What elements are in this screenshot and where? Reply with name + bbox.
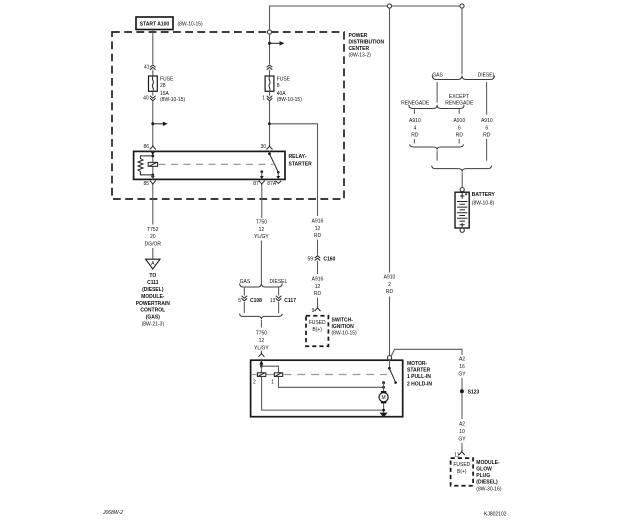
svg-text:(GAS): (GAS): [146, 315, 161, 321]
svg-text:(8W-13-2): (8W-13-2): [349, 53, 372, 59]
svg-text:POWER: POWER: [349, 33, 368, 39]
svg-text:T750: T750: [256, 331, 268, 337]
svg-text:MOTOR-: MOTOR-: [407, 361, 428, 367]
label FUSE 8 40A: [277, 77, 303, 103]
node junction circle on top wire left: [387, 4, 391, 8]
wire into motor starter: [260, 351, 262, 353]
svg-text:86: 86: [143, 144, 149, 150]
ground: [380, 413, 388, 418]
svg-text:A910: A910: [384, 274, 396, 280]
svg-text:A2: A2: [459, 422, 465, 428]
wire right branch from PDC border to fuse 8: [269, 34, 271, 64]
svg-text:YL/GY: YL/GY: [254, 345, 269, 351]
svg-text:85: 85: [143, 181, 149, 187]
connector chevron pin 86: [150, 145, 156, 150]
svg-text:T752: T752: [147, 227, 159, 233]
label wire A916 12 RD lower: [312, 276, 324, 297]
relay switch arm 30 to 87A: [268, 151, 280, 173]
svg-text:2 HOLD-IN: 2 HOLD-IN: [407, 381, 432, 387]
connector Y pin 85: [150, 181, 156, 186]
svg-text:13: 13: [270, 298, 276, 304]
svg-text:A910: A910: [481, 118, 493, 124]
svg-text:RD: RD: [483, 133, 491, 139]
motor mechanical dashed link: [252, 374, 387, 376]
wire T750 to split brace: [260, 241, 262, 284]
label POWER DISTRIBUTION CENTER: [349, 33, 385, 59]
battery: [455, 192, 469, 228]
wire T752 lower: [152, 248, 154, 259]
wire tick below merge: [260, 320, 262, 328]
connector chevron pin 30: [267, 145, 273, 150]
svg-text:A916: A916: [312, 276, 324, 282]
svg-text:STARTER: STARTER: [289, 161, 313, 167]
node circle where feed wire crosses PDC border: [267, 30, 271, 34]
switch-ignition dashed box FUSED B(+): [306, 316, 328, 346]
wire tick renegade lower: [413, 139, 415, 143]
svg-text:A910: A910: [454, 118, 466, 124]
wire T750 from pin 87: [261, 185, 263, 218]
svg-text:8: 8: [277, 83, 280, 89]
svg-text:GAS: GAS: [432, 72, 443, 78]
wire dot to pull-in coil: [261, 366, 278, 373]
svg-text:RD: RD: [456, 133, 464, 139]
wire battery feed down from top: [461, 8, 463, 74]
svg-text:RD: RD: [386, 289, 394, 295]
svg-text:16: 16: [459, 364, 465, 370]
svg-text:RENEGADE: RENEGADE: [401, 100, 430, 106]
wire tick except branch: [458, 109, 460, 114]
svg-text:C111: C111: [147, 280, 159, 286]
svg-text:(8W-10-15): (8W-10-15): [160, 97, 186, 103]
brace split T750 gas/diesel: [240, 283, 283, 287]
label wire T750 12 YL/GY: [254, 219, 269, 240]
svg-text:87: 87: [253, 181, 259, 187]
svg-text:DIESEL: DIESEL: [478, 72, 496, 78]
connector double chevron C108: [242, 296, 248, 301]
svg-text:4: 4: [414, 125, 417, 131]
connector open chevron pin 87A: [276, 181, 282, 183]
connector double chevron at pin 40: [150, 96, 156, 101]
svg-text:C108: C108: [250, 298, 262, 304]
svg-text:RD: RD: [314, 233, 322, 239]
label wire A910 6 RD (diesel): [481, 118, 493, 139]
connector pin 9: [315, 307, 321, 312]
brace split gas/diesel feed: [432, 76, 494, 80]
svg-text:A916: A916: [312, 218, 324, 224]
svg-text:40: 40: [143, 96, 149, 102]
connector double chevron above fuse 8: [267, 65, 273, 70]
svg-text:T750: T750: [256, 219, 268, 225]
wire gas branch upper: [436, 82, 438, 103]
svg-text:START A100: START A100: [140, 21, 170, 27]
node splice S123: [460, 389, 480, 395]
node circle battery positive: [460, 188, 464, 192]
wire fuse 28 to junction: [152, 91, 154, 146]
wire diesel branch lower: [486, 139, 488, 161]
off-page connector triangle A: [146, 259, 160, 269]
svg-text:9: 9: [312, 308, 315, 314]
relay coil circuit: [138, 151, 158, 179]
svg-text:C117: C117: [284, 298, 296, 304]
svg-text:IGNITION: IGNITION: [332, 324, 355, 330]
svg-text:12: 12: [259, 338, 265, 344]
brace split renegade/except: [409, 105, 464, 109]
wire A916 below C160: [317, 261, 319, 274]
wire A910-2 vertical upper: [389, 8, 391, 273]
brace merge gas/diesel: [432, 166, 492, 172]
node circle battery negative: [460, 228, 464, 232]
relay-starter box: [134, 151, 285, 179]
relay mechanical dashed link: [159, 163, 274, 165]
label wire A916 12 RD: [312, 218, 324, 239]
fuse 28: [149, 76, 158, 91]
svg-text:MODULE-: MODULE-: [476, 460, 500, 466]
wire into fuse 28: [152, 70, 154, 76]
relay pin 87 contact: [260, 170, 264, 179]
wire C117 branch: [278, 288, 280, 313]
wire T752 upper: [152, 185, 154, 224]
label wire A910 2 RD: [384, 274, 396, 295]
svg-text:10: 10: [459, 429, 465, 435]
node junction dot with arrow left: [151, 122, 168, 126]
svg-text:A2: A2: [459, 357, 465, 363]
svg-text:41: 41: [144, 64, 150, 70]
svg-text:B(+): B(+): [457, 469, 467, 475]
svg-text:87A: 87A: [267, 181, 277, 187]
svg-text:(8W-10-15): (8W-10-15): [277, 97, 303, 103]
label wire A910 6 RD (except renegade): [454, 118, 466, 139]
label BATTERY: [472, 192, 496, 206]
svg-text:BATTERY: BATTERY: [472, 192, 496, 198]
wire A916 to pin 9: [317, 298, 319, 307]
wire top feed horizontal: [270, 6, 463, 32]
svg-text:B(+): B(+): [312, 327, 322, 333]
svg-text:DG/OR: DG/OR: [145, 242, 162, 248]
wire entry arrow into motor box: [259, 359, 263, 368]
wire branch to A916: [270, 124, 318, 216]
svg-text:CENTER: CENTER: [349, 46, 370, 52]
svg-text:PLUG: PLUG: [476, 473, 490, 479]
svg-text:CONTROL: CONTROL: [140, 308, 165, 314]
svg-text:YL/GY: YL/GY: [254, 234, 269, 240]
label EXCEPT RENEGADE: [445, 94, 474, 107]
svg-text:59: 59: [307, 256, 313, 262]
svg-text:SWITCH-: SWITCH-: [332, 318, 354, 324]
svg-text:FUSED: FUSED: [453, 462, 470, 468]
brace merge renegade/except: [410, 144, 464, 149]
svg-text:GLOW: GLOW: [476, 467, 492, 473]
motor-starter box: [251, 360, 403, 417]
svg-text:(8W-10-8): (8W-10-8): [472, 200, 495, 206]
connector Y pin 87: [259, 181, 265, 186]
wire left branch from START box down: [152, 30, 154, 65]
svg-text:FUSED: FUSED: [309, 320, 326, 326]
wire pull-in coil to motor top: [279, 376, 384, 387]
svg-text:RD: RD: [411, 133, 419, 139]
svg-text:20: 20: [150, 234, 156, 240]
svg-text:DIESEL: DIESEL: [270, 279, 288, 285]
svg-text:M: M: [382, 395, 386, 401]
svg-text:RENEGADE: RENEGADE: [445, 100, 474, 106]
svg-text:12: 12: [259, 227, 265, 233]
connector pin 11: [459, 450, 465, 455]
label wire T750 12 YL/GY lower: [254, 331, 269, 352]
connector pin into motor starter: [258, 352, 264, 357]
svg-text:STARTER: STARTER: [407, 368, 431, 374]
svg-text:(8W-10-15): (8W-10-15): [332, 331, 358, 337]
wire gas branch lower: [436, 150, 438, 160]
brace merge C108/C117: [240, 314, 283, 320]
connector double chevron C160: [315, 256, 321, 261]
svg-text:(8W-30-16): (8W-30-16): [476, 487, 502, 493]
wire dot to hold-in coil: [260, 366, 262, 373]
svg-text:J068W-2: J068W-2: [102, 510, 123, 516]
wire relay coil to pin 85: [152, 175, 154, 180]
svg-text:12: 12: [315, 284, 321, 290]
wire A910-2 vertical lower: [389, 297, 391, 356]
label wire A2 16 GY: [458, 357, 466, 378]
label TO C111 MODULE-POWERTRAIN CONTROL: [136, 273, 171, 327]
svg-text:KJ802102: KJ802102: [484, 512, 507, 518]
label wire T752 20 DG/OR: [145, 227, 162, 248]
connector double chevron C117: [276, 296, 282, 301]
svg-text:POWERTRAIN: POWERTRAIN: [136, 301, 171, 307]
wire tick renegade branch: [413, 109, 415, 114]
wire into fuse 8: [269, 70, 271, 76]
svg-text:TO: TO: [149, 273, 156, 279]
START A100 callout box: [136, 17, 203, 30]
svg-text:1: 1: [271, 379, 274, 385]
svg-text:6: 6: [485, 125, 488, 131]
motor switch arm: [387, 356, 397, 384]
hold-in coil rect pin 2: [257, 373, 265, 377]
svg-text:(DIESEL): (DIESEL): [142, 287, 164, 293]
svg-text:5: 5: [238, 298, 241, 304]
svg-text:RD: RD: [314, 291, 322, 297]
power distribution center dashed box: [112, 32, 344, 199]
label wire A2 10 GY: [458, 422, 466, 443]
module-glow plug dashed box FUSED B(+): [451, 458, 474, 486]
svg-text:(DIESEL): (DIESEL): [476, 480, 498, 486]
connector double chevron below fuse 8: [267, 96, 273, 101]
svg-text:FUSE: FUSE: [277, 77, 291, 83]
svg-text:MODULE-: MODULE-: [141, 294, 165, 300]
wire C108 branch: [243, 288, 245, 313]
svg-text:DISTRIBUTION: DISTRIBUTION: [349, 39, 385, 45]
connector double chevron at pin 41: [150, 65, 156, 70]
wire hold-in coil to motor bottom: [262, 376, 384, 410]
svg-text:S123: S123: [468, 389, 480, 395]
svg-text:GAS: GAS: [240, 279, 251, 285]
svg-text:28: 28: [160, 83, 166, 89]
label MOTOR-STARTER 1 PULL-IN 2 HOLD-IN: [407, 361, 432, 387]
node junction dot feeding A916: [268, 122, 271, 125]
svg-text:6: 6: [458, 125, 461, 131]
svg-text:12: 12: [315, 226, 321, 232]
svg-text:EXCEPT: EXCEPT: [449, 94, 469, 100]
wire diesel branch upper: [486, 82, 488, 115]
label FUSE 28 15A: [160, 77, 186, 103]
wire tick except lower: [458, 139, 460, 143]
svg-text:30: 30: [260, 144, 266, 150]
wire fuse 8 to relay pin 30: [269, 91, 271, 146]
label wire A910 4 RD: [409, 118, 421, 139]
wire solenoid feed to A2: [391, 349, 462, 356]
wire A2 to pin 11: [461, 443, 463, 451]
svg-text:(8W-21-3): (8W-21-3): [142, 322, 165, 328]
svg-text:2: 2: [388, 282, 391, 288]
svg-text:FUSE: FUSE: [160, 77, 174, 83]
svg-text:RELAY-: RELAY-: [289, 154, 307, 160]
svg-text:(8W-10-15): (8W-10-15): [178, 22, 204, 28]
svg-text:2: 2: [253, 379, 256, 385]
svg-text:GY: GY: [458, 371, 466, 377]
svg-text:A910: A910: [409, 118, 421, 124]
svg-text:1 PULL-IN: 1 PULL-IN: [407, 374, 431, 380]
relay pin 87A stub: [276, 172, 280, 179]
fuse 8: [265, 76, 274, 91]
motor M: [379, 381, 388, 412]
svg-text:GY: GY: [458, 436, 466, 442]
node junction circle on top wire right: [460, 4, 464, 8]
wire to battery: [461, 172, 463, 187]
label SWITCH-IGNITION: [332, 318, 358, 337]
svg-text:C160: C160: [323, 256, 335, 262]
label RELAY-STARTER: [289, 154, 313, 167]
wire A916 middle: [317, 240, 319, 255]
svg-text:1: 1: [262, 96, 265, 102]
node junction dot with arrow right-top: [268, 41, 285, 45]
pull-in coil rect pin 1: [274, 373, 282, 377]
label MODULE-GLOW PLUG (DIESEL): [476, 460, 502, 493]
wire A2 to S123: [461, 378, 463, 419]
